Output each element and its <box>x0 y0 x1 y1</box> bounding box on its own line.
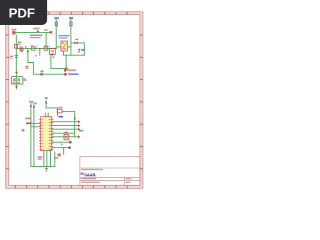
svg-text:PDF: PDF <box>9 5 35 20</box>
